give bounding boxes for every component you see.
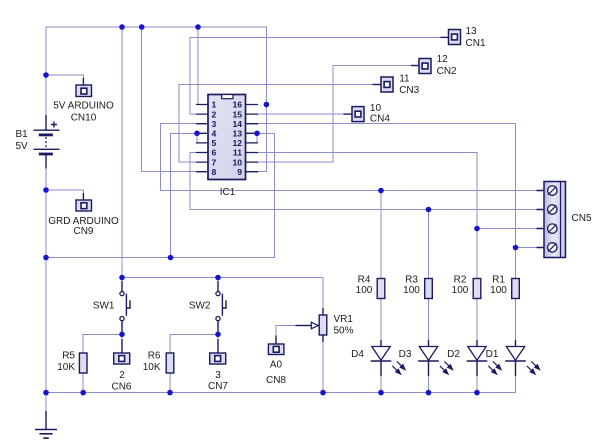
node rail-SW1 riser <box>119 24 125 30</box>
wire R3 / D3 column <box>428 210 430 393</box>
node ground rail left <box>43 255 49 261</box>
connector CN10 <box>76 78 92 97</box>
svg-text:R2: R2 <box>454 275 467 286</box>
svg-text:13: 13 <box>466 26 478 37</box>
switch SW2 <box>216 281 226 332</box>
svg-text:5V ARDUINO: 5V ARDUINO <box>53 101 114 112</box>
LED D2 <box>467 340 502 376</box>
potentiometer VR1 <box>296 308 327 342</box>
svg-text:SW1: SW1 <box>93 301 115 312</box>
svg-text:CN8: CN8 <box>266 375 286 386</box>
svg-text:CN6: CN6 <box>111 382 131 393</box>
connector CN9 <box>76 193 92 211</box>
wire rail to IC pin 8 via x=141.7 <box>142 27 196 172</box>
LED D1 <box>505 340 540 376</box>
svg-text:5: 5 <box>212 138 217 148</box>
svg-text:2: 2 <box>212 109 217 119</box>
svg-text:11: 11 <box>399 74 410 85</box>
connector CN8 <box>268 336 284 355</box>
wire IC pin 4 to pin 5 tie <box>197 133 208 143</box>
connector CN3 <box>373 77 394 92</box>
node SW2 bottom junction <box>215 332 221 338</box>
svg-text:15: 15 <box>232 109 242 119</box>
svg-text:CN5: CN5 <box>572 213 592 224</box>
svg-text:CN7: CN7 <box>208 381 228 392</box>
node pin13/pin12 tie <box>254 131 260 137</box>
svg-text:7: 7 <box>212 157 217 167</box>
node bus-ground <box>43 390 49 396</box>
wire IC pin 6 to R3 / CN5 terminal 2 <box>190 153 544 210</box>
svg-text:100: 100 <box>452 285 469 296</box>
node R3 column / CN5 term2 <box>426 207 432 213</box>
ground <box>35 411 57 438</box>
svg-text:CN10: CN10 <box>71 113 97 124</box>
wire +5V riser x=122 from rail to switch net <box>121 27 123 278</box>
wire IC pin 11 to R2 / CN5 terminal 3 <box>258 153 544 229</box>
wire IC pin 3 to R4 / CN5 terminal 1 <box>161 124 545 191</box>
svg-text:B1: B1 <box>16 129 29 140</box>
wire IC pin 2 to CN1 <box>190 37 441 114</box>
resistor R3 <box>425 279 433 299</box>
wire left vertical x=46 below battery down to ground junction <box>45 154 47 393</box>
svg-text:1: 1 <box>212 100 217 110</box>
wire IC pin 15 to CN4 <box>258 113 344 115</box>
op IC1 16-pin DIP body <box>196 95 258 180</box>
svg-text:D1: D1 <box>486 349 499 360</box>
wire VR1 bottom to bottom bus <box>322 341 324 393</box>
svg-text:13: 13 <box>232 129 242 139</box>
svg-text:R6: R6 <box>148 351 161 362</box>
svg-text:CN3: CN3 <box>399 85 419 96</box>
wire ground stub below bus <box>45 393 47 413</box>
node bus-VR1 <box>320 390 326 396</box>
connector CN2 <box>411 59 431 74</box>
wire SW2 junction to CN7 <box>217 334 219 353</box>
svg-text:100: 100 <box>403 285 420 296</box>
wire IC pin 16 to pin 9 (+5V) <box>258 105 266 172</box>
node bus-D3 <box>426 390 432 396</box>
svg-text:12: 12 <box>232 138 242 148</box>
svg-text:CN4: CN4 <box>370 114 390 125</box>
svg-text:VR1: VR1 <box>334 314 354 325</box>
node bus-R6 <box>167 390 173 396</box>
connector CN5 screw terminal block <box>537 182 566 258</box>
svg-text:100: 100 <box>356 285 373 296</box>
wire SW2 leads <box>217 278 219 335</box>
svg-text:4: 4 <box>212 129 217 139</box>
wire IC pins 13/12 to ground rail y=257.5 <box>46 133 275 257</box>
svg-text:10: 10 <box>232 157 242 167</box>
wire IC pin 14 to R1 / CN5 terminal 4 <box>258 124 544 248</box>
node rail-pin8 riser <box>139 24 145 30</box>
connector CN1 <box>441 30 461 45</box>
node R4 column / CN5 term1 <box>378 188 384 194</box>
wire SW1 leads <box>121 278 123 335</box>
svg-text:10: 10 <box>370 103 382 114</box>
svg-text:11: 11 <box>233 148 242 158</box>
LED D3 <box>418 340 453 376</box>
wire IC pin 13 to pin 12 tie <box>256 133 258 143</box>
svg-text:6: 6 <box>212 148 217 158</box>
wire R4 / D4 column <box>380 191 382 393</box>
node bus-D4 <box>378 390 384 396</box>
node rail-pin1 riser <box>195 24 201 30</box>
wire rail to IC pin 1 via x=198 <box>197 27 199 105</box>
svg-text:R1: R1 <box>492 275 505 286</box>
svg-text:100: 100 <box>490 285 507 296</box>
svg-text:5V: 5V <box>16 141 29 152</box>
svg-text:SW2: SW2 <box>189 301 211 312</box>
svg-text:50%: 50% <box>334 326 354 337</box>
resistor R1 <box>512 279 520 299</box>
wire +5V top rail from left vertical to pin16 drop <box>46 27 266 130</box>
DOTS_START <box>43 24 518 395</box>
wire IC pin 10 to CN2 <box>258 66 411 163</box>
svg-text:3: 3 <box>212 119 217 129</box>
svg-text:10K: 10K <box>57 362 75 373</box>
wire CN3 to IC pin 7 <box>179 85 372 163</box>
WIRES_START <box>46 27 544 413</box>
node bus-D2 <box>474 390 480 396</box>
node R2 column / CN5 term3 <box>474 226 480 232</box>
svg-text:8: 8 <box>212 167 217 177</box>
wire SW1 junction to R5 <box>83 334 122 353</box>
switch SW1 <box>120 281 130 332</box>
resistor R6 <box>166 353 174 373</box>
svg-text:D2: D2 <box>447 349 460 360</box>
node 5V arduino tap <box>43 72 49 78</box>
svg-text:IC1: IC1 <box>220 187 236 198</box>
svg-text:2: 2 <box>119 370 125 381</box>
node SW1 top <box>119 275 125 281</box>
svg-text:3: 3 <box>215 370 221 381</box>
svg-text:CN2: CN2 <box>437 66 457 77</box>
svg-text:R3: R3 <box>405 275 418 286</box>
connector CN7 <box>210 339 226 364</box>
wire IC pin 4+5 to ground net <box>171 133 197 257</box>
svg-text:R4: R4 <box>358 275 371 286</box>
svg-text:10K: 10K <box>143 362 161 373</box>
svg-text:14: 14 <box>232 119 242 129</box>
wire GRD-arduino branch to CN9 <box>46 190 83 200</box>
svg-text:16: 16 <box>232 100 242 110</box>
node pin4/pin5 tie <box>194 131 200 137</box>
node SW1 bottom junction <box>119 332 125 338</box>
LED D4 <box>371 340 406 376</box>
node GRD arduino tap <box>43 187 49 193</box>
wire R2 / D2 column <box>476 229 478 393</box>
svg-text:R5: R5 <box>62 351 75 362</box>
wire node 5V-arduino branch to CN10 <box>46 75 83 85</box>
wire R6 bottom to bus <box>169 373 171 393</box>
connector CN6 <box>114 339 130 364</box>
wire SW1 junction to CN6 <box>121 334 123 353</box>
resistor R4 <box>377 279 385 299</box>
wire R1 / D1 column <box>515 248 517 389</box>
node R1 column / CN5 term4 <box>513 245 519 251</box>
node SW2 top <box>215 275 221 281</box>
resistor R2 <box>473 279 481 299</box>
node bus-R5 <box>80 390 86 396</box>
resistor R5 <box>79 353 87 373</box>
svg-text:D3: D3 <box>399 349 412 360</box>
connector CN4 <box>344 107 365 122</box>
svg-text:12: 12 <box>437 54 449 65</box>
wire bottom ground bus <box>46 361 516 393</box>
wire R5 bottom to bus <box>82 373 84 393</box>
svg-text:9: 9 <box>237 167 242 177</box>
node pin16 +5V <box>264 102 270 108</box>
wire SW2 junction to R6 <box>170 334 218 353</box>
svg-text:CN1: CN1 <box>466 38 486 49</box>
svg-text:CN9: CN9 <box>73 226 93 237</box>
battery B1 <box>34 115 60 169</box>
svg-text:D4: D4 <box>351 349 364 360</box>
node pin4/5 ground join <box>168 255 174 261</box>
svg-text:A0: A0 <box>270 360 283 371</box>
wire A0 CN8 to VR1 wiper <box>276 326 300 345</box>
wire switch supply net y=277.5 to VR1 top <box>122 278 323 310</box>
TEXT_START <box>16 26 592 393</box>
